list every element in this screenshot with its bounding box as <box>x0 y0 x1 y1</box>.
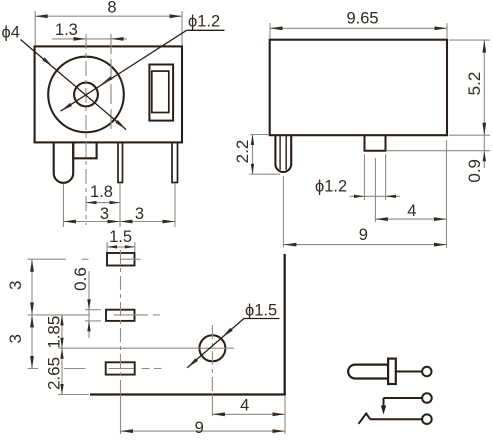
dimension 0.9: arrow <box>483 151 486 162</box>
symbol switch: spring contact kink <box>359 414 371 424</box>
dimension 4 bottom: text <box>240 397 249 415</box>
symbol switch: lower terminal circle <box>422 414 432 424</box>
symbol switch: actuator line <box>383 398 385 407</box>
dimension dia 1.2 side: text <box>315 178 347 196</box>
front view pin center extension lines <box>63 183 175 227</box>
dimension 1.8: text <box>90 183 113 201</box>
dimension 0.6: extension lines <box>85 310 101 321</box>
svg-text:1.8: 1.8 <box>90 183 113 201</box>
dimension 9 bottom: arrows <box>121 429 286 433</box>
dimension 3 3 chain: arrows <box>63 220 175 224</box>
dimension dia 1.2 side: extension lines <box>364 154 385 200</box>
dimension 3 upper: text <box>6 281 25 290</box>
dimension 1.85: text <box>45 316 64 349</box>
side view: center terminal stub <box>365 135 386 151</box>
svg-text:ϕ1.5: ϕ1.5 <box>245 302 277 320</box>
dimension 8: text <box>107 0 116 17</box>
dimension 3 left: text <box>100 205 109 223</box>
pcb view: top slot horizontal centerline <box>28 258 141 260</box>
dimension 4 side: dimension line <box>375 218 446 220</box>
svg-text:1.5: 1.5 <box>109 228 132 246</box>
svg-text:3: 3 <box>6 334 25 343</box>
side view: lug pin shading lines <box>280 135 286 170</box>
dimension 2.65: arrows <box>60 348 63 394</box>
dimension 5.2: arrows <box>482 40 486 135</box>
front view: vertical centerline <box>85 34 87 225</box>
dimension 9.65: text <box>346 10 378 28</box>
label dia 1.5: text <box>245 302 277 320</box>
front view: center terminal stub <box>73 142 96 158</box>
svg-text:3: 3 <box>6 281 25 290</box>
dimension 9.65: dimension line <box>270 27 447 29</box>
dimension 8: dimension line <box>35 15 182 17</box>
dimension 5.2: extension lines <box>449 40 490 135</box>
front view: side slot inner rectangle <box>152 71 169 112</box>
dimension 9 bottom: text <box>195 419 204 437</box>
pcb view: round hole (dia 1.5) <box>199 335 225 361</box>
svg-text:4: 4 <box>240 397 249 415</box>
side view lug pin center extension <box>282 176 284 247</box>
symbol plug: flange <box>388 359 396 384</box>
dimension 0.9: text <box>465 159 484 183</box>
side view: jack body outline <box>270 40 447 136</box>
symbol plug: bullet body <box>348 365 389 379</box>
dimension 0.9: dimension line <box>483 135 485 168</box>
label dia 1.2 front: leader line <box>61 30 225 111</box>
pcb view: top slot hole <box>107 253 135 266</box>
dimension 3 3 vertical chain: arrows <box>30 259 34 368</box>
dimension 5.2: dimension line <box>483 40 485 135</box>
svg-text:5.2: 5.2 <box>465 72 484 96</box>
svg-text:4: 4 <box>407 202 416 220</box>
dimension 2.2: extension lines <box>250 135 281 175</box>
symbol switch: lower contact wire <box>370 418 422 420</box>
dimension 1.5: text <box>109 228 132 246</box>
dimension 1.3: dimension line <box>52 38 127 40</box>
svg-text:1.85: 1.85 <box>45 316 64 349</box>
dimension 4 bottom: dimension line <box>212 413 285 415</box>
svg-text:ϕ4: ϕ4 <box>2 24 20 42</box>
dimension 0.6: arrows <box>87 299 90 331</box>
svg-text:9.65: 9.65 <box>346 10 378 28</box>
front view: left lug pin with rounded tip <box>54 142 73 182</box>
svg-text:0.9: 0.9 <box>465 159 484 183</box>
dimension 2.65: text <box>45 357 64 390</box>
label dia 4: leader line <box>21 40 127 130</box>
svg-text:ϕ1.2: ϕ1.2 <box>188 13 220 31</box>
label dia 1.2 front: arrows <box>61 76 113 111</box>
svg-text:1.3: 1.3 <box>55 21 78 39</box>
dimension 0.6: dimension line <box>88 271 90 338</box>
dimension 3 right: text <box>135 205 144 223</box>
svg-text:3: 3 <box>100 205 109 223</box>
pcb view: middle slot hole <box>106 310 135 321</box>
dimension 3 3 chain: dimension line <box>63 221 175 223</box>
dimension 2.2: arrows <box>251 135 254 175</box>
svg-text:0.6: 0.6 <box>71 267 90 291</box>
dimension 9.65: arrows <box>270 26 447 30</box>
symbol switch: actuator arrow <box>381 406 386 415</box>
svg-text:3: 3 <box>135 205 144 223</box>
label dia 1.5: arrows <box>187 328 233 368</box>
label dia 1.2 front: text <box>188 13 220 31</box>
dimension 4 side: text <box>407 202 416 220</box>
pcb view: hole horizontal centerline <box>59 347 234 349</box>
dimension 8: extension lines <box>35 11 182 45</box>
svg-text:8: 8 <box>107 0 116 17</box>
symbol plug: stem wire <box>396 371 422 373</box>
dimension dia 1.2 side: dimension line <box>350 195 400 197</box>
symbol switch: upper terminal circle <box>422 393 432 403</box>
front view: right thin pin <box>172 142 178 182</box>
label dia 4: text <box>2 24 20 42</box>
dimension 0.9: extension line <box>387 150 490 152</box>
dimension 1.8: arrows <box>86 201 120 204</box>
label dia 4: arrows <box>42 57 126 129</box>
svg-text:2.65: 2.65 <box>45 357 64 390</box>
front view: side slot outer rectangle <box>149 65 173 121</box>
dimension 1.5: extension lines <box>107 242 135 252</box>
dimension dia 1.2 side: arrows <box>354 195 396 198</box>
svg-text:ϕ1.2: ϕ1.2 <box>315 178 347 196</box>
dimension 1.85: arrows <box>60 315 63 348</box>
dimension 3 3 vertical chain: dimension line <box>31 259 33 368</box>
front view: barrel outer circle (dia 4) <box>48 57 124 133</box>
dimension 8: arrows <box>35 14 182 18</box>
dimension 1.5: arrows <box>107 245 135 248</box>
dimension 4 side: arrows <box>375 217 446 221</box>
svg-text:9: 9 <box>195 419 204 437</box>
dimension 1.3: arrows <box>74 37 124 41</box>
dimension 1.85: dimension line <box>61 315 63 395</box>
symbol plug: terminal circle <box>422 367 431 376</box>
dimension 2.2: dimension line <box>252 135 254 175</box>
pcb view: middle slot horizontal centerline <box>28 314 161 316</box>
pcb view: bottom slot horizontal centerline <box>28 368 162 370</box>
dimension 3 lower: text <box>6 334 25 343</box>
dimension 4 bottom: arrows <box>212 412 285 416</box>
label dia 1.5: leader line <box>187 319 279 368</box>
dimension 9 bottom: dimension line <box>121 430 286 432</box>
pcb view: bottom slot hole <box>106 362 135 374</box>
side view: front lug pin with rounded tip <box>275 135 291 172</box>
dimension 9 side: dimension line <box>284 244 447 246</box>
pcb view: slots vertical centerline <box>120 250 122 434</box>
front view: jack body outline <box>35 46 182 142</box>
symbol switch: upper contact wire <box>384 397 423 399</box>
dimension 4 side: extension lines <box>375 140 446 248</box>
dimension 2.2: text <box>233 140 252 164</box>
dimension 9 side: arrows <box>284 243 447 247</box>
front view: hidden edge dashed line (1.3 ref) <box>110 34 112 133</box>
pcb board bottom edge extension <box>58 394 89 396</box>
dimension 1.5: dimension line <box>107 246 135 248</box>
dimension 0.6: text <box>71 267 90 291</box>
front view: middle thin pin <box>118 142 123 182</box>
front view: center pin hole circle (dia 1.2) <box>74 83 98 107</box>
pcb view: board corner edge <box>90 254 285 395</box>
dimension 1.8: dimension line <box>86 202 120 204</box>
pcb view: hole vertical centerline <box>211 325 213 416</box>
svg-text:9: 9 <box>359 226 368 244</box>
svg-text:2.2: 2.2 <box>233 140 252 164</box>
dimension 4 bottom: extension line <box>284 396 286 434</box>
dimension 9.65: extension lines <box>270 23 447 39</box>
dimension 9 side: text <box>359 226 368 244</box>
dimension 1.3: text <box>55 21 78 39</box>
dimension 5.2: text <box>465 72 484 96</box>
